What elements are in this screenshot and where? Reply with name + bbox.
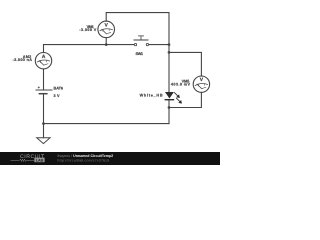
watermark bar [0,152,220,165]
svg-text:White_HB: White_HB [140,93,163,97]
svg-text:SW1: SW1 [136,52,144,56]
CircuitLab logo [11,154,46,162]
svg-text:A: A [42,54,46,60]
node junction VM5-bottom/right-rail [168,106,171,109]
ground [37,138,50,144]
wire VM5 top branch [169,52,201,76]
battery BAT6 [36,86,53,93]
switch SW1 [134,36,149,46]
wire right rail: mid to LED anode [168,45,170,93]
ground stem [43,124,45,138]
svg-text:-3.000 nA: -3.000 nA [13,58,33,62]
node junction VM4/mid-wire [105,43,108,46]
wire AM2 bottom to battery [43,69,45,90]
LED White_HB [165,92,182,103]
wire VM5 bottom branch [169,92,201,107]
wire SW1 right to right rail [149,44,169,46]
node junction VM5-top/right-rail [168,51,171,54]
node junction mid-wire/right-rail [168,43,171,46]
node junction ground [42,122,45,125]
svg-text:403.9 mV: 403.9 mV [171,82,191,86]
ammeter AM2 [35,53,51,69]
svg-text:http://circuitlab.com/c7x376z9: http://circuitlab.com/c7x376z9 [58,158,110,162]
svg-text:3 V: 3 V [54,94,60,98]
wire battery to ground junction [43,94,45,124]
wire top: VM4 top to right rail [106,13,169,45]
svg-text:-3.000 V: -3.000 V [79,28,96,32]
svg-text:LAB: LAB [36,158,44,162]
wire bottom: right rail to ground junction [44,123,170,125]
wire VM4 bottom stub [105,38,107,45]
svg-text:BAT6: BAT6 [54,86,64,90]
voltmeter VM4 [98,21,115,38]
wire mid: AM2 top to SW1 left [44,45,134,53]
wire LED cathode to bottom corner [168,100,170,124]
voltmeter VM5 [193,76,209,92]
